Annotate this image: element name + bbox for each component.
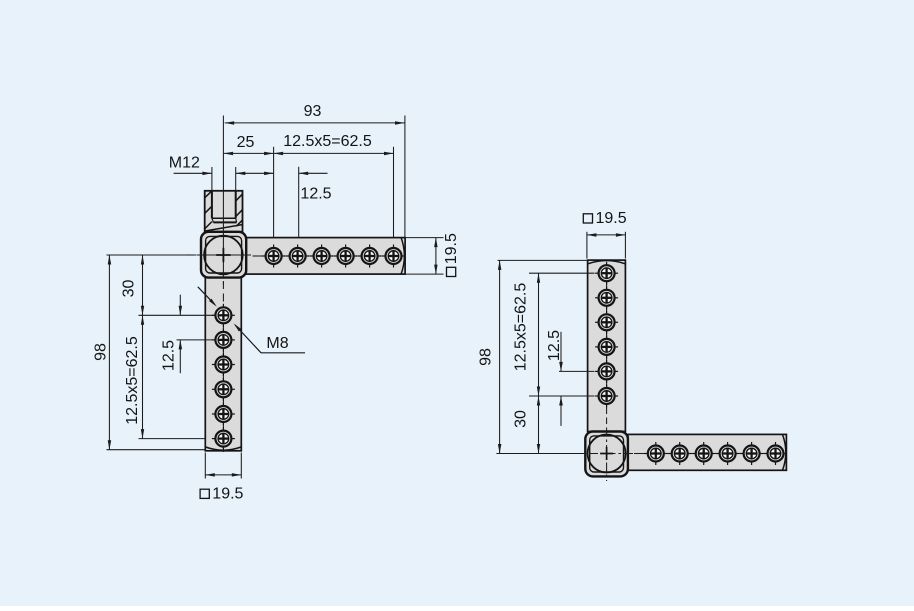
svg-text:M8: M8 bbox=[266, 335, 288, 352]
left view: vertical arm body bbox=[205, 278, 241, 451]
left view: hole B2 (M8) bbox=[212, 328, 235, 351]
left view: vertical arm centerline bbox=[222, 282, 224, 452]
svg-text:30: 30 bbox=[512, 410, 529, 428]
right view: hole C1 bbox=[595, 262, 618, 285]
svg-text:19.5: 19.5 bbox=[443, 233, 460, 264]
dim 98 right view bbox=[477, 260, 587, 453]
right view: hole C2 bbox=[595, 286, 618, 309]
left view: corner square bbox=[201, 232, 246, 278]
svg-text:12.5x5=62.5: 12.5x5=62.5 bbox=[512, 283, 529, 372]
left view: hole B1 (M8) bbox=[212, 304, 235, 327]
right view: hole C6 bbox=[595, 385, 618, 408]
left view: hole B3 (M8) bbox=[212, 353, 235, 376]
left view: hole B4 (M8) bbox=[212, 378, 235, 401]
right view: vertical arm body bbox=[588, 260, 626, 431]
svg-text:M12: M12 bbox=[169, 155, 200, 172]
right view: hole C5 bbox=[595, 360, 618, 383]
dim 12.5 right view bbox=[546, 330, 595, 426]
svg-text:98: 98 bbox=[92, 343, 109, 361]
left view: horizontal arm body bbox=[246, 238, 405, 275]
right view: hole C3 bbox=[595, 311, 618, 334]
svg-text:12.5x5=62.5: 12.5x5=62.5 bbox=[124, 336, 141, 425]
dim sq19.5 bottom left view bbox=[200, 453, 243, 503]
svg-text:19.5: 19.5 bbox=[212, 486, 243, 503]
M8 label leader bbox=[234, 323, 305, 352]
dim 98 left bbox=[92, 255, 205, 450]
dim M12 bbox=[169, 155, 274, 176]
left view: M12 threaded stud bbox=[205, 191, 243, 232]
right view: hole C4 bbox=[595, 335, 618, 358]
dim 25 bbox=[224, 134, 274, 155]
left view: hole A3 (M8) bbox=[310, 245, 333, 268]
left view: hole B5 (M8) bbox=[212, 403, 235, 426]
dim sq19.5 right of horizontal arm bbox=[405, 233, 460, 276]
right view: horizontal arm centerline bbox=[634, 453, 787, 455]
right view: hole D2 bbox=[668, 442, 691, 465]
left view: corner crosshair centerlines bbox=[186, 116, 251, 285]
svg-text:98: 98 bbox=[477, 348, 494, 366]
dim 30 left bbox=[120, 255, 216, 315]
svg-text:12.5: 12.5 bbox=[546, 330, 563, 361]
dim 12.5 left vertical bbox=[160, 295, 216, 374]
dim 93 bbox=[225, 103, 405, 125]
svg-text:25: 25 bbox=[237, 134, 255, 151]
left view: hole A4 (M8) bbox=[334, 245, 357, 268]
dim 12.5x5=62.5 left vertical bbox=[124, 315, 206, 438]
left view: hole A5 (M8) bbox=[358, 245, 381, 268]
left view: hole A2 (M8) bbox=[286, 245, 309, 268]
right view: vertical arm centerline bbox=[606, 282, 608, 424]
dim 93 extension lines bbox=[212, 116, 405, 238]
right view: corner dashed crosshair bbox=[572, 428, 634, 482]
right view: hole D3 bbox=[692, 442, 715, 465]
svg-text:12.5: 12.5 bbox=[300, 185, 331, 202]
svg-text:93: 93 bbox=[304, 103, 322, 120]
svg-text:19.5: 19.5 bbox=[596, 210, 627, 227]
left view: hole A6 (M8) bbox=[382, 245, 405, 268]
svg-text:30: 30 bbox=[120, 280, 137, 298]
dim 30 right view bbox=[512, 396, 540, 454]
left view: hole A1 (M8) bbox=[262, 245, 285, 268]
right view: corner square bbox=[585, 432, 628, 477]
right view: hole D5 bbox=[740, 442, 763, 465]
svg-text:12.5: 12.5 bbox=[160, 340, 177, 371]
right view: horizontal arm body bbox=[628, 434, 787, 470]
left view: horizontal arm centerline bbox=[253, 255, 406, 257]
leader arrow into hole B1 bbox=[198, 287, 217, 307]
dim 12.5x5=62.5 right view bbox=[512, 273, 594, 396]
right view: hole D1 bbox=[644, 442, 667, 465]
dim 12.5x5=62.5 top bbox=[274, 133, 394, 155]
dim 12.5 top bbox=[299, 172, 332, 203]
right view: hole D4 bbox=[716, 442, 739, 465]
svg-text:12.5x5=62.5: 12.5x5=62.5 bbox=[283, 133, 372, 150]
left view: hole B6 (M8) bbox=[212, 427, 235, 450]
right view: hole D6 bbox=[764, 442, 787, 465]
dim sq19.5 top right view bbox=[583, 210, 626, 258]
